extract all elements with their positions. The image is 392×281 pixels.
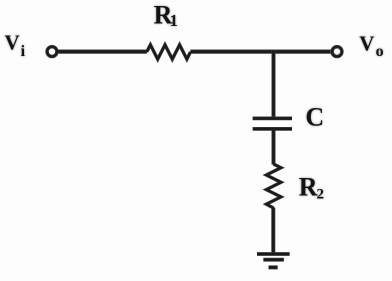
svg-text:2: 2 — [317, 187, 325, 203]
svg-text:V: V — [5, 30, 20, 54]
label Vi — [5, 30, 26, 60]
wire input to R1 — [58, 49, 147, 53]
label R1 — [154, 0, 178, 30]
wire R1 to Vo — [190, 49, 331, 53]
ground — [257, 254, 290, 267]
terminal Vi — [47, 47, 57, 57]
svg-text:i: i — [21, 43, 26, 60]
svg-text:o: o — [376, 43, 384, 60]
resistor R2 — [266, 164, 281, 208]
svg-text:R: R — [299, 172, 318, 201]
label Vo — [359, 32, 383, 60]
svg-text:V: V — [359, 32, 374, 56]
wire C to R2 — [272, 130, 276, 165]
svg-text:1: 1 — [170, 11, 179, 30]
resistor R1 — [147, 45, 191, 59]
wire junction to C — [272, 51, 276, 118]
wire R2 to ground — [271, 208, 275, 254]
terminal Vo — [332, 47, 342, 57]
label R2 — [299, 172, 324, 202]
capacitor C — [253, 118, 292, 128]
svg-text:C: C — [305, 102, 324, 131]
label C — [305, 102, 324, 131]
